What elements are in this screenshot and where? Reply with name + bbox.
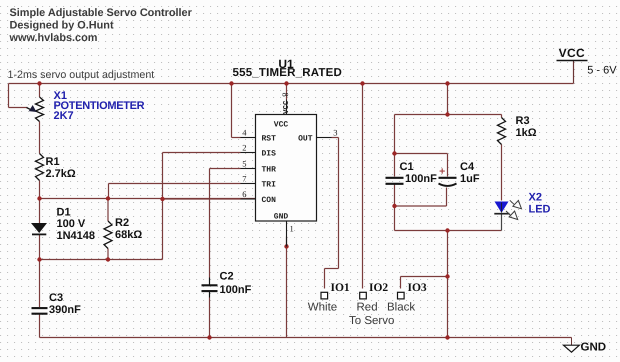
wire pot X1 top lead xyxy=(39,84,41,98)
wire bottom node drop xyxy=(394,206,396,231)
wire node line y=198 D1/R2/TRI/CON xyxy=(40,198,256,200)
svg-text:IO3: IO3 xyxy=(408,282,427,294)
resistor R2 xyxy=(104,221,112,249)
wire C3 bottom lead xyxy=(39,315,41,338)
svg-text:Red: Red xyxy=(357,302,378,314)
wire R2 top lead xyxy=(107,199,109,222)
svg-text:R2: R2 xyxy=(115,217,129,229)
svg-text:1: 1 xyxy=(290,224,294,234)
node VCC pin8 rail junction xyxy=(284,81,288,85)
node LED return xyxy=(445,228,449,232)
svg-text:C2: C2 xyxy=(220,271,234,283)
wire VCC drop to IO2 xyxy=(362,84,364,289)
node RST rail junction xyxy=(229,81,233,85)
svg-text:100 V: 100 V xyxy=(57,218,86,230)
svg-text:C3: C3 xyxy=(49,292,63,304)
wire rail drop to cap bank xyxy=(447,84,449,115)
svg-text:68kΩ: 68kΩ xyxy=(115,229,142,241)
svg-text:LED: LED xyxy=(529,204,551,216)
wire C4 bottom lead xyxy=(446,188,448,207)
node GND pin mid dot xyxy=(284,244,288,248)
node R2 top / TRI xyxy=(106,196,110,200)
wire D1 top lead xyxy=(39,199,41,224)
svg-text:2K7: 2K7 xyxy=(54,110,74,122)
svg-text:CON: CON xyxy=(262,196,277,205)
wire pot wiper horizontal xyxy=(9,107,28,109)
node IO3 junction xyxy=(445,274,449,278)
wire RST pin run xyxy=(232,137,241,139)
wire node line y=114 C1/C4/R3 xyxy=(395,114,502,116)
resistor R1 xyxy=(36,154,44,181)
svg-text:DIS: DIS xyxy=(262,150,277,159)
node D1 top xyxy=(37,196,41,200)
svg-text:1uF: 1uF xyxy=(460,173,480,185)
pin stubs U1 xyxy=(241,100,332,247)
wire LED return y=230 xyxy=(395,230,502,232)
wire IO3 to ground net xyxy=(401,276,448,278)
svg-text:5 - 6V: 5 - 6V xyxy=(587,65,617,77)
svg-text:Designed by O.Hunt: Designed by O.Hunt xyxy=(10,20,114,32)
capacitor C2 xyxy=(202,284,218,286)
svg-text:OUT: OUT xyxy=(298,135,313,144)
svg-text:R1: R1 xyxy=(46,156,60,168)
VCC power symbol xyxy=(557,60,588,62)
wire C1-C4 top link y=153 xyxy=(395,153,448,155)
svg-text:VCC: VCC xyxy=(559,46,585,60)
connector IO2 xyxy=(360,292,367,299)
capacitor C1 xyxy=(386,177,404,179)
svg-text:1kΩ: 1kΩ xyxy=(516,127,537,139)
wire C1 bottom lead xyxy=(394,185,396,207)
node IO2 rail junction xyxy=(360,81,364,85)
wire D1 bottom lead xyxy=(39,235,41,260)
svg-text:X2: X2 xyxy=(529,192,542,204)
node ground rail junction xyxy=(445,335,449,339)
connector IO1 xyxy=(321,292,328,299)
wire THR down to C2 xyxy=(209,169,211,278)
resistor R3 xyxy=(498,118,506,145)
svg-text:555_TIMER_RATED: 555_TIMER_RATED xyxy=(233,67,343,79)
svg-text:GND: GND xyxy=(581,342,607,354)
svg-text:100nF: 100nF xyxy=(220,284,252,296)
svg-text:www.hvlabs.com: www.hvlabs.com xyxy=(9,32,98,44)
wire pot bottom to R1 top xyxy=(39,122,41,154)
svg-text:To Servo: To Servo xyxy=(349,315,394,327)
node C1-C4 bottom xyxy=(392,204,396,208)
wire ground drop x=447 xyxy=(447,231,449,338)
wire IO3 stub riser xyxy=(400,277,402,289)
wire VCC symbol stub xyxy=(573,61,575,84)
wire LED cathode lead xyxy=(501,214,503,231)
wire DIS vertical drop x=162 xyxy=(162,153,164,260)
svg-text:3: 3 xyxy=(333,128,337,138)
ground symbol bottom right xyxy=(571,338,573,346)
wire top VCC rail y=83 xyxy=(9,83,574,85)
wire C1 top lead xyxy=(394,154,396,177)
wire R1 bottom lead xyxy=(39,181,41,199)
svg-text:THR: THR xyxy=(262,166,277,175)
potentiometer X1 xyxy=(36,97,44,122)
node D1 bottom xyxy=(37,257,41,261)
wire R3 to LED xyxy=(501,145,503,201)
wire drop to C1 top node xyxy=(394,115,396,154)
svg-text:C4: C4 xyxy=(460,161,475,173)
wire IC GND pin down to rail xyxy=(286,237,288,338)
wire THR pin run xyxy=(210,168,241,170)
wire TRI pin 7 run xyxy=(109,183,241,185)
svg-text:8: 8 xyxy=(281,93,291,97)
svg-text:TRI: TRI xyxy=(262,181,277,190)
svg-text:Simple Adjustable Servo Contro: Simple Adjustable Servo Controller xyxy=(10,7,193,19)
svg-text:2.7kΩ: 2.7kΩ xyxy=(46,168,76,180)
svg-text:White: White xyxy=(308,302,337,314)
svg-text:2: 2 xyxy=(242,143,246,153)
wire R2 bottom lead xyxy=(107,249,109,260)
wire OUT drop x=338 xyxy=(338,138,340,269)
wire C1-C4 bottom link xyxy=(395,205,447,207)
svg-text:D1: D1 xyxy=(57,207,71,219)
wire TRI drop to node xyxy=(108,184,110,199)
svg-text:RST: RST xyxy=(262,135,277,144)
wire RST riser to rail xyxy=(231,84,233,138)
node C2 rail junction xyxy=(207,335,211,339)
wire VCC pin8 riser xyxy=(286,84,288,100)
wire C2 bottom lead to rail xyxy=(209,298,211,338)
wire OUT run xyxy=(332,137,339,139)
svg-text:1-2ms servo output adjustment: 1-2ms servo output adjustment xyxy=(8,69,155,81)
diode D1 xyxy=(31,223,47,233)
wire node line y=259 D1/R2/DIS xyxy=(40,259,163,261)
svg-text:VCC: VCC xyxy=(282,100,291,114)
wire bottom ground rail y=337 xyxy=(40,337,572,339)
capacitor C4 polarized xyxy=(439,177,457,179)
svg-text:GND: GND xyxy=(274,213,289,222)
node R2 bottom xyxy=(106,257,110,261)
node DIS-CON cross xyxy=(160,197,164,201)
svg-text:1N4148: 1N4148 xyxy=(57,230,96,242)
wire CON pin run xyxy=(163,198,241,200)
capacitor C3 xyxy=(32,307,48,309)
wire OUT jog to IO1 xyxy=(325,268,339,270)
svg-text:Black: Black xyxy=(387,302,415,314)
wire C3 top lead xyxy=(39,260,41,308)
connector IO3 xyxy=(398,292,405,299)
op... IC U1 555 timer box xyxy=(256,115,317,222)
svg-text:IO2: IO2 xyxy=(369,282,388,294)
svg-text:IO1: IO1 xyxy=(331,282,350,294)
svg-text:R3: R3 xyxy=(516,115,530,127)
svg-text:390nF: 390nF xyxy=(49,304,81,316)
node cap bank rail junction xyxy=(445,81,449,85)
svg-text:C1: C1 xyxy=(400,161,414,173)
svg-text:+: + xyxy=(439,166,445,178)
node C1 top xyxy=(392,151,396,155)
svg-text:7: 7 xyxy=(242,174,246,184)
wire R3 top lead xyxy=(501,115,503,118)
wire IO1 stub riser xyxy=(324,269,326,289)
svg-text:6: 6 xyxy=(242,189,246,199)
wire DIS pin run xyxy=(163,152,241,154)
LED X2 xyxy=(495,202,509,213)
svg-text:VCC: VCC xyxy=(274,121,289,130)
node pot top junction xyxy=(37,81,41,85)
node C-bank top xyxy=(445,112,449,116)
svg-text:100nF: 100nF xyxy=(405,173,437,185)
wire C4 top lead xyxy=(447,154,449,177)
wire pot wiper drop left edge xyxy=(8,84,10,108)
svg-text:5: 5 xyxy=(242,159,246,169)
